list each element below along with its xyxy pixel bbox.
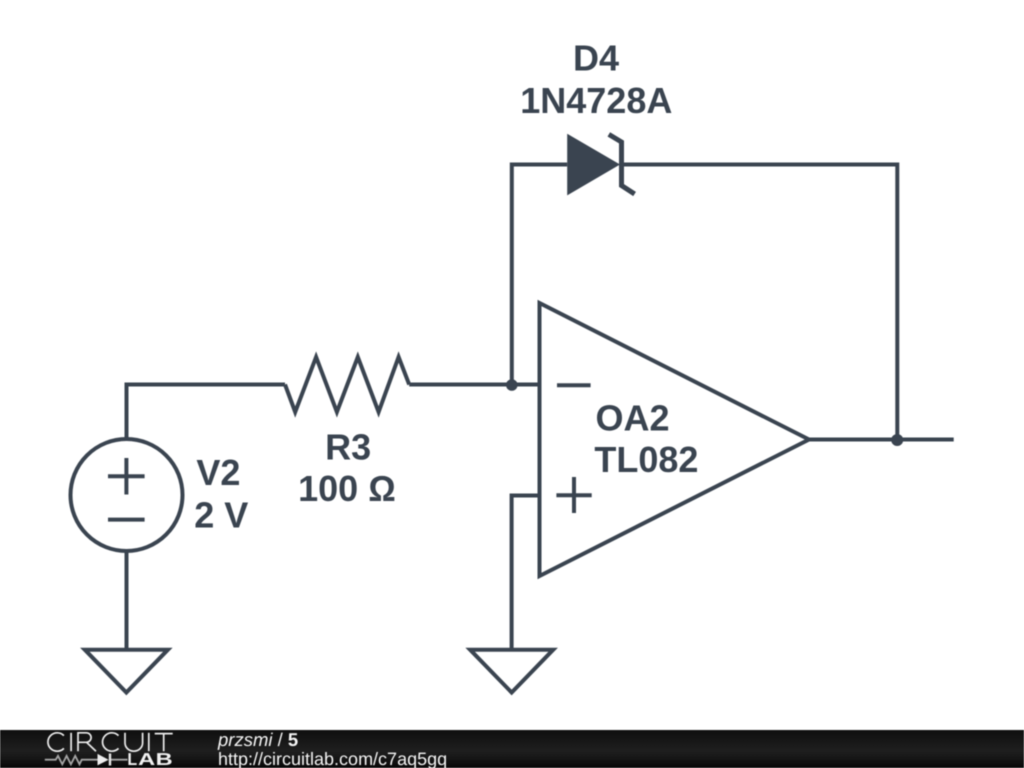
svg-text:TL082: TL082 (594, 439, 698, 480)
resistor R3 (285, 357, 409, 412)
svg-text:2 V: 2 V (194, 495, 248, 536)
svg-text:100 Ω: 100 Ω (298, 468, 396, 509)
svg-text:B: B (156, 749, 173, 768)
svg-text:D4: D4 (573, 38, 619, 79)
svg-text:http://circuitlab.com/c7aq5gq: http://circuitlab.com/c7aq5gq (218, 749, 447, 768)
node: junction at op-amp inverting input (506, 379, 518, 391)
svg-text:A: A (138, 749, 156, 768)
wire V2 top to resistor (127, 385, 286, 440)
svg-text:R3: R3 (325, 426, 371, 467)
logo LAB (127, 749, 172, 768)
svg-text:L: L (127, 749, 137, 768)
wire plus input to ground (512, 496, 540, 650)
wire V2 bottom to ground (125, 551, 129, 650)
wire op-amp output (809, 438, 954, 442)
V2 plus symbol (108, 458, 145, 495)
svg-text:1N4728A: 1N4728A (520, 80, 672, 121)
ground 2 (op-amp) (470, 650, 553, 693)
zener diode D4 body (567, 134, 620, 196)
wire resistor to op-amp minus input (409, 383, 539, 387)
logo resistor-diode squiggle (45, 754, 128, 766)
V2 minus symbol (108, 518, 145, 522)
svg-text:V2: V2 (196, 452, 240, 493)
zener diode D4 cathode bar (609, 134, 635, 194)
ground 1 (V2) (85, 650, 168, 693)
svg-text:OA2: OA2 (596, 397, 670, 438)
wire feedback left vertical (512, 165, 567, 385)
svg-text:przsmi / 5: przsmi / 5 (217, 730, 298, 750)
footer bar (0, 730, 1024, 768)
op-amp plus symbol (556, 477, 591, 513)
logo CIRCUIT (custom thin letterforms) (48, 733, 173, 751)
logo diode triangle (98, 754, 109, 766)
op-amp OA2 triangle (540, 303, 810, 576)
op-amp minus symbol (557, 383, 591, 387)
wire diode to right corner and down to output (622, 165, 898, 441)
voltage source V2 circle (71, 439, 183, 551)
node: junction at op-amp output (891, 434, 903, 446)
